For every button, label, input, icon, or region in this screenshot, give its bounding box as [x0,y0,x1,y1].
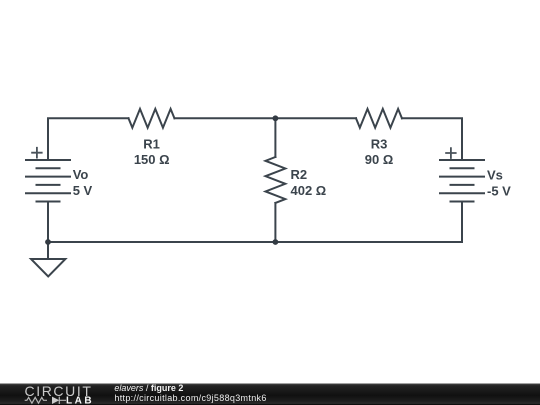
resistor R1 [129,109,175,128]
node A junction dot [273,115,279,121]
battery V2 Vs plus sign [446,148,456,158]
battery V1 Vo plus sign [32,148,42,158]
svg-text:5 V: 5 V [73,183,93,198]
svg-text:90 Ω: 90 Ω [365,152,394,167]
wire R2 bottom lead to bottom rail node [274,203,276,242]
wire Vo- terminal down to ground node [47,202,49,243]
logo diode triangle [52,397,59,404]
wire bottom rail [48,241,462,243]
ground junction dot [45,239,51,245]
wire R3 right lead to top-right corner down to Vs+ terminal [402,118,462,160]
wire Vo+ terminal up to top-left corner and over to R1 [48,118,129,160]
svg-text:R2: R2 [291,167,308,182]
wire Vs- terminal down to bottom rail [461,202,463,243]
svg-text:http://circuitlab.com/c9j588q3: http://circuitlab.com/c9j588q3mtnk6 [114,393,266,403]
wire node A to R3 left lead [275,117,356,119]
svg-text:R3: R3 [371,136,388,151]
wire node A down to R2 top lead [274,118,276,157]
svg-text:R1: R1 [143,136,160,151]
footer bar [0,384,540,405]
resistor R2 [266,157,286,203]
node B junction dot (R2 bottom on rail) [273,239,279,245]
battery V1 Vo plates [26,160,70,202]
wire R1 right lead to node A [174,117,275,119]
svg-text:150 Ω: 150 Ω [134,152,170,167]
svg-text:Vo: Vo [73,167,89,182]
logo wire-diode squiggle [25,397,66,404]
ground GND triangle [31,259,65,277]
battery V2 Vs plates [440,160,484,202]
resistor R3 [356,109,402,128]
svg-text:LAB: LAB [66,396,94,405]
svg-text:402 Ω: 402 Ω [291,183,327,198]
svg-text:elavers / figure 2: elavers / figure 2 [114,383,183,393]
svg-text:Vs: Vs [487,168,503,183]
ground GND stub [47,242,49,259]
svg-text:-5 V: -5 V [487,184,511,199]
